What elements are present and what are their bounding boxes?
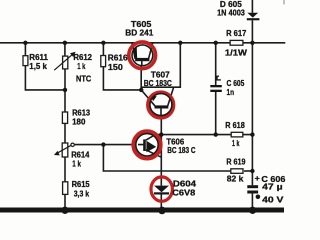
svg-text:82 k: 82 k [227, 173, 244, 183]
capacitor C606 [247, 185, 258, 188]
wire R611 bottom to divider node [25, 66, 65, 90]
zener diode D604 [154, 186, 169, 193]
node C605/R618 wire [214, 132, 218, 136]
svg-text:BC 183C: BC 183C [144, 78, 173, 88]
ground node R615 [61, 207, 68, 214]
wire D605 top lead [251, 0, 253, 13]
wire R614 wiper to T606 base [74, 144, 136, 146]
R612 trimmer arrow [54, 54, 73, 71]
node R619/C606 [250, 169, 254, 173]
node T606 base branch [101, 142, 105, 146]
node rail/D605 [250, 41, 254, 45]
resistor R619 [231, 169, 243, 174]
wire T605 base lead [140, 61, 142, 90]
R614 wiper tap circle [71, 143, 74, 146]
transistor T606 symbol [138, 135, 158, 156]
svg-text:1 k: 1 k [77, 61, 85, 71]
svg-text:+: + [255, 173, 260, 183]
wire T606 collector node to R618 [154, 134, 253, 136]
svg-text:3,3 k: 3,3 k [74, 188, 90, 198]
svg-text:180: 180 [72, 116, 85, 126]
node R618 right [250, 132, 254, 136]
wire T606 emitter lead [146, 150, 162, 157]
node T605 base [139, 88, 143, 92]
transistor T605 symbol [132, 43, 153, 66]
transistor T606 body [136, 134, 158, 156]
svg-text:150: 150 [108, 62, 123, 72]
wire T605 emitter lead [132, 43, 136, 58]
capacitor C605 [210, 85, 222, 87]
resistor R611 [23, 56, 28, 66]
wire T607 collector lead [168, 87, 174, 106]
node rail/R612 [63, 41, 67, 45]
wire R615 to ground bus [64, 194, 66, 210]
wire T605 collector lead [149, 43, 153, 58]
ground node D604 [158, 207, 166, 215]
highlight ring around T607 [148, 92, 174, 118]
wire C605 bottom lead [215, 92, 217, 135]
svg-text:R615: R615 [72, 179, 90, 189]
node divider R611-R612 [63, 88, 67, 92]
resistor R617 [230, 40, 243, 45]
wire R612 top lead [64, 43, 66, 56]
transistor T605 body [132, 45, 153, 66]
C606 polarity dot [256, 195, 261, 200]
wire R613 to R614 [64, 123, 66, 143]
wire T607 base lead down to zener node [160, 116, 162, 172]
diode D605 [247, 13, 258, 18]
svg-text:1N 4003: 1N 4003 [217, 8, 245, 18]
ground bus [0, 208, 284, 213]
R614 wiper arrow [57, 145, 72, 153]
svg-text:BC 183 C: BC 183 C [167, 145, 196, 155]
transistor T607 body [150, 94, 172, 116]
svg-text:1,5 k: 1,5 k [29, 61, 47, 71]
wire R616 bottom to T605 base node [103, 67, 141, 90]
node T607 base / T606 collector [159, 132, 163, 136]
wire T606 collector lead [146, 135, 156, 141]
wire R616 top lead [102, 43, 104, 56]
wire D604 bottom lead to bus [160, 194, 162, 208]
wire R619 right lead [244, 170, 252, 172]
highlight ring around T606 [133, 131, 160, 158]
potentiometer R614 body [62, 143, 68, 157]
wire R612 to R613 [64, 69, 66, 112]
wire D605 cathode to rail [251, 20, 253, 43]
svg-text:C6V8: C6V8 [172, 188, 195, 198]
wire rail to T607 collector return [141, 43, 180, 87]
resistor R615 [63, 182, 68, 195]
node rail/R616 [101, 41, 105, 45]
resistor R616 [101, 56, 106, 67]
svg-text:1 k: 1 k [72, 158, 81, 168]
wire wiper node down to zener node and R619 [103, 145, 230, 171]
wire D604 top lead [160, 171, 162, 186]
node rail/R611 [23, 41, 27, 45]
wire C605 top lead [215, 43, 217, 85]
wire top supply rail [0, 42, 285, 44]
highlight ring around D604 [151, 177, 172, 201]
wire R611 top lead [24, 43, 26, 56]
reference mark near C605 [215, 76, 221, 80]
ground node C606 [249, 207, 256, 214]
svg-text:1/1W: 1/1W [225, 48, 248, 58]
svg-text:1 k: 1 k [232, 138, 240, 148]
transistor T607 symbol [146, 87, 174, 116]
faint edge tick top right [283, 0, 285, 5]
wire C606 bottom lead [251, 194, 253, 211]
resistor R613 [62, 112, 67, 123]
svg-text:R 619: R 619 [226, 157, 245, 167]
wire T607 emitter lead [141, 90, 155, 106]
wire right vertical rail to C606 [251, 43, 253, 185]
svg-text:47 µ: 47 µ [262, 182, 283, 192]
svg-text:1n: 1n [227, 87, 235, 97]
highlight ring around T605 [129, 42, 156, 69]
resistor R612 trimmer body [63, 56, 68, 69]
node rail/C605 [214, 41, 218, 45]
svg-text:R 618: R 618 [225, 120, 245, 130]
node rail/T607 collector [178, 41, 182, 45]
resistor R618 [231, 132, 243, 137]
svg-text:40 V: 40 V [262, 194, 284, 204]
wire R614 to R615 [64, 157, 66, 182]
svg-text:BD 241: BD 241 [125, 28, 153, 38]
svg-text:R 617: R 617 [226, 28, 246, 38]
svg-text:NTC: NTC [76, 74, 92, 84]
